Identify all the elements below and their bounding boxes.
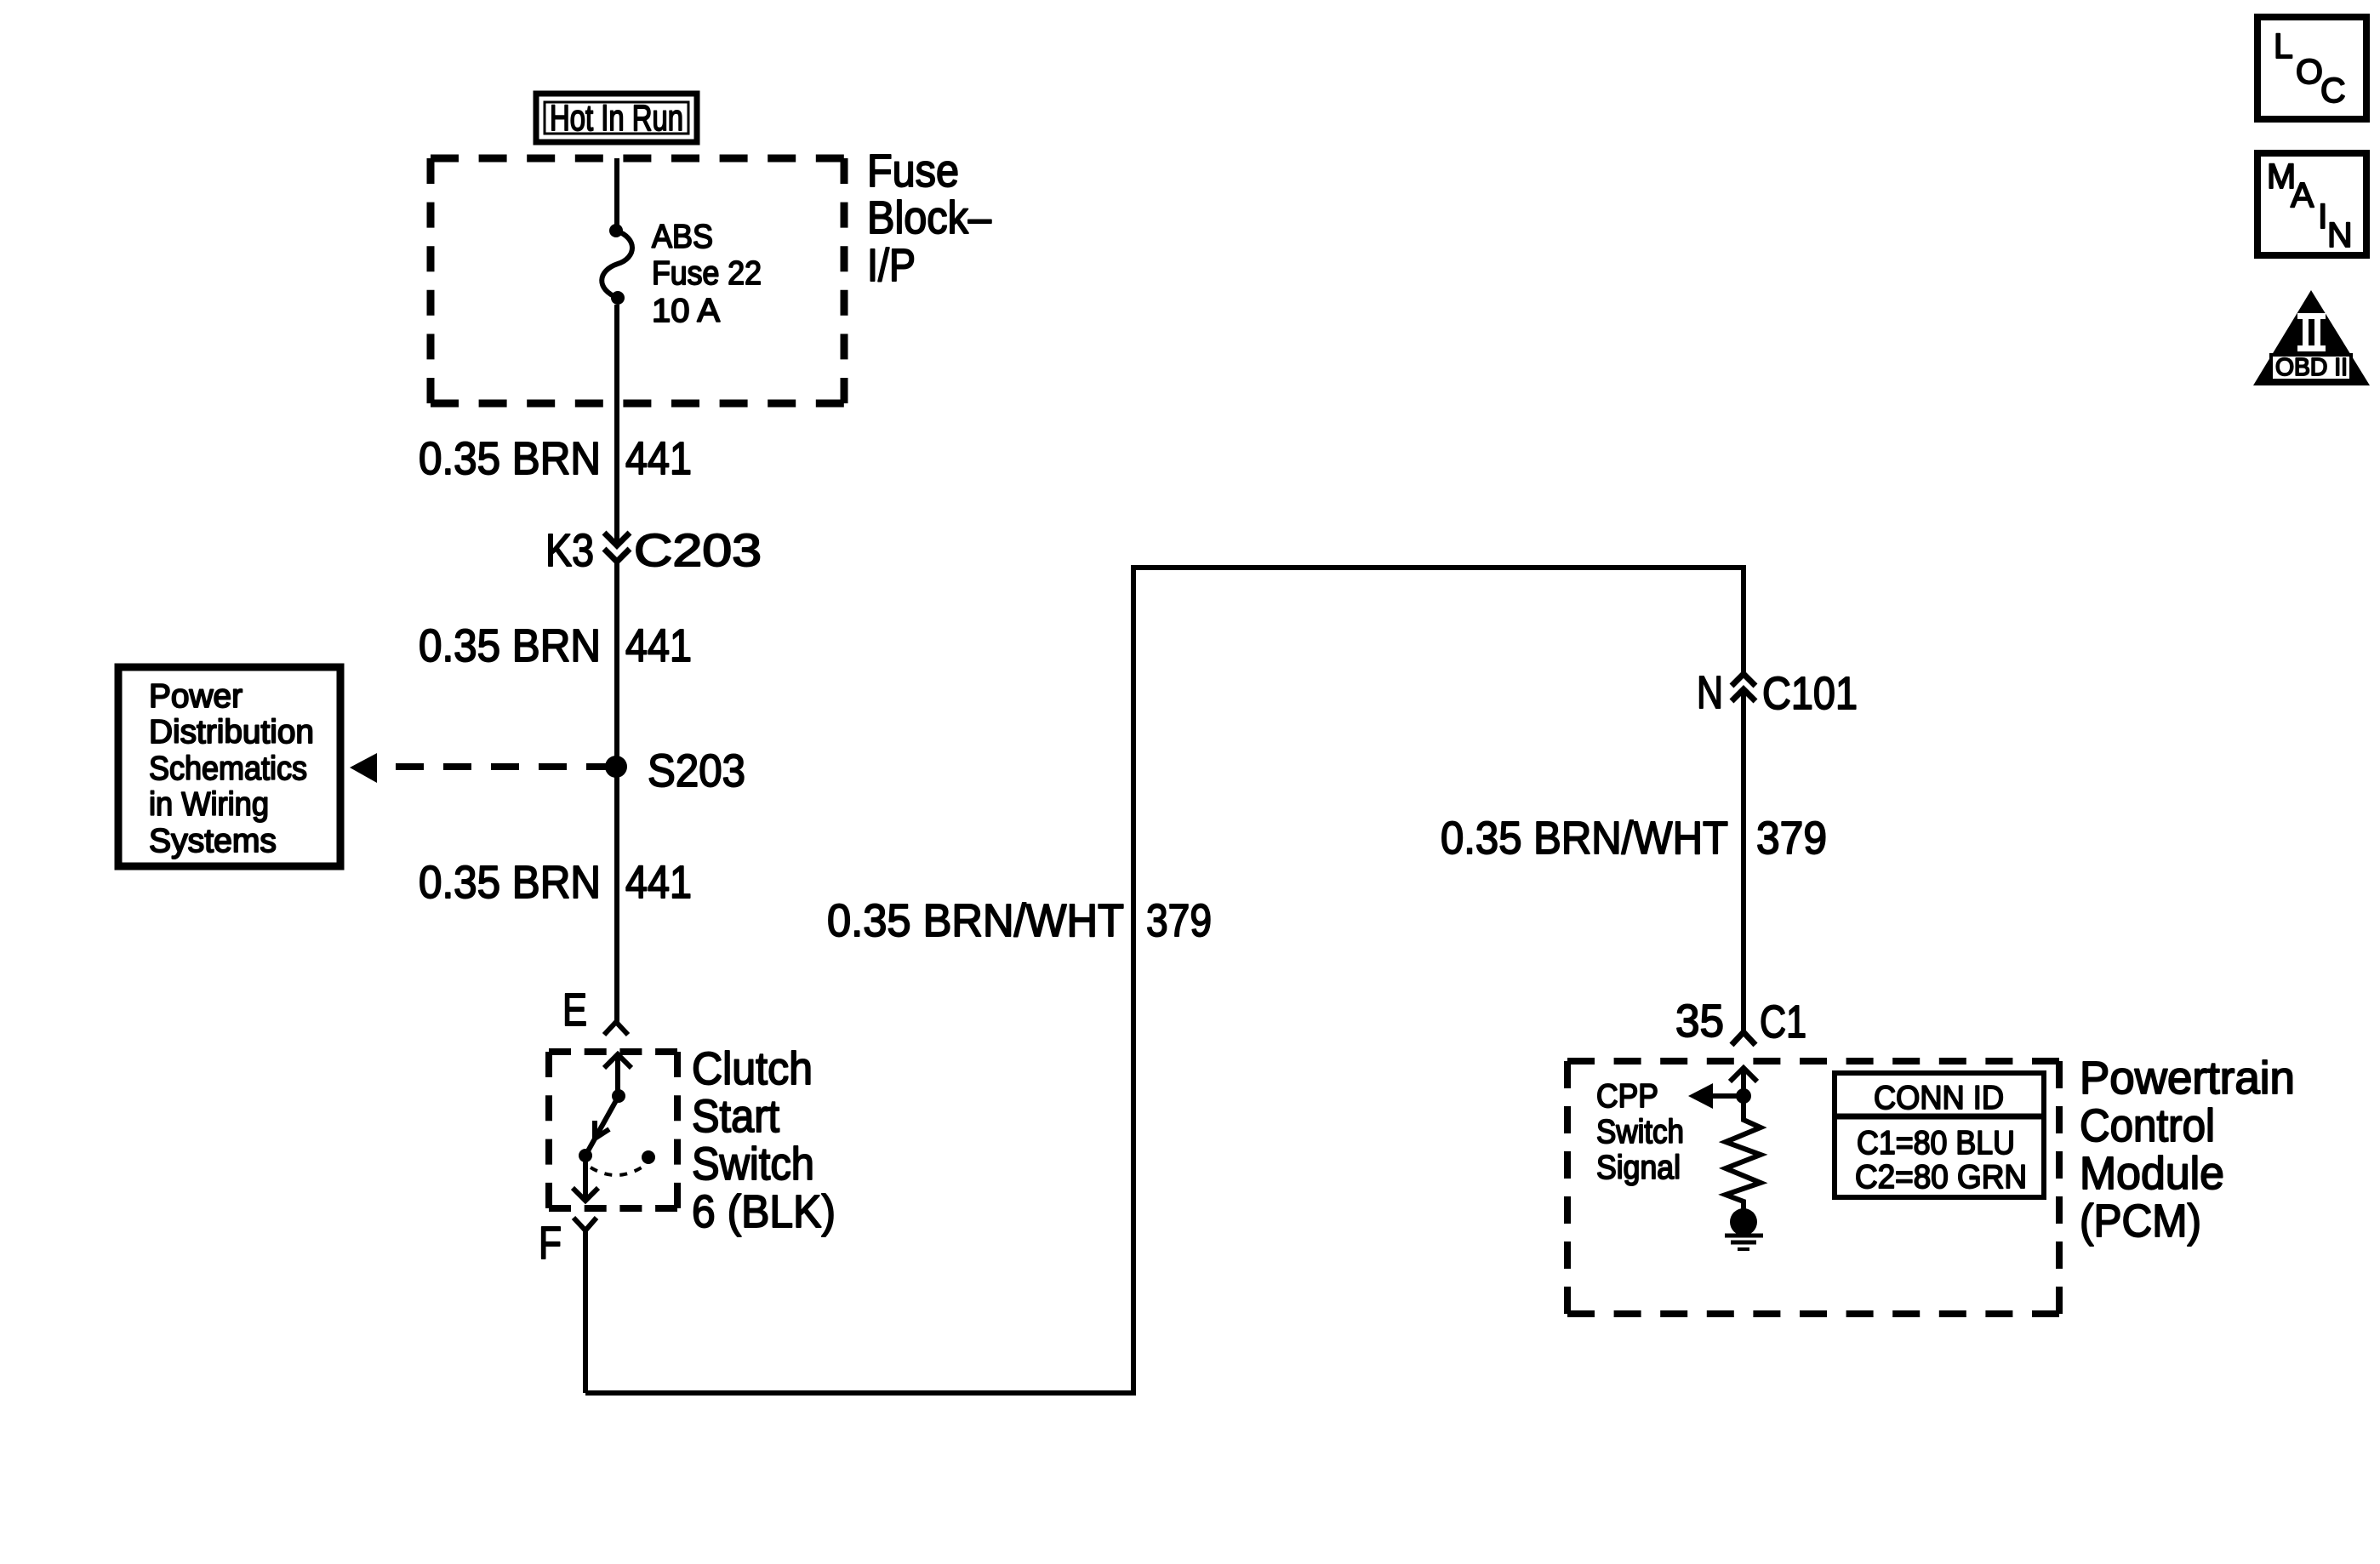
wire from Hot In Run to fuse bbox=[614, 158, 619, 228]
svg-text:I/P: I/P bbox=[867, 240, 916, 291]
svg-text:ABS: ABS bbox=[652, 219, 713, 255]
svg-text:CONN ID: CONN ID bbox=[1874, 1080, 2004, 1116]
dashed reference arrow to Power Distribution bbox=[350, 753, 617, 783]
CPP switch signal input arrow bbox=[1688, 1068, 1757, 1109]
svg-text:10 A: 10 A bbox=[652, 293, 720, 329]
svg-text:CPP: CPP bbox=[1596, 1078, 1658, 1115]
OBD II icon bbox=[2253, 290, 2370, 385]
svg-text:K3: K3 bbox=[545, 525, 594, 576]
connector E bbox=[562, 985, 628, 1036]
wire 379 bottom run from F to PCM riser bbox=[585, 568, 1744, 1393]
label 0.35 BRN 441 (third) bbox=[419, 857, 692, 908]
connector N C101 bbox=[1697, 667, 1858, 719]
svg-text:Switch: Switch bbox=[1596, 1114, 1684, 1150]
svg-text:Block–: Block– bbox=[867, 192, 991, 243]
connector 35 C1 bbox=[1675, 996, 1806, 1047]
label CPP Switch Signal bbox=[1596, 1078, 1684, 1186]
svg-text:F: F bbox=[539, 1218, 562, 1269]
svg-text:Clutch: Clutch bbox=[692, 1043, 813, 1094]
label Powertrain Control Module (PCM) bbox=[2080, 1053, 2295, 1247]
clutch start switch dashed box bbox=[549, 1052, 677, 1208]
svg-text:0.35 BRN: 0.35 BRN bbox=[419, 433, 601, 484]
fuse ABS Fuse 22 10 A bbox=[602, 224, 632, 305]
CONN ID table bbox=[1835, 1073, 2044, 1197]
connector K3 C203 bbox=[545, 525, 762, 576]
svg-text:Power: Power bbox=[149, 678, 243, 715]
wire 441 segment from C203 to E bbox=[614, 562, 619, 1022]
svg-text:L: L bbox=[2274, 26, 2293, 66]
label 0.35 BRN/WHT 379 (left) bbox=[827, 895, 1212, 946]
fuse block I/P dashed box bbox=[431, 158, 844, 403]
wire 379 segment from C101 to PCM bbox=[1741, 689, 1746, 1032]
svg-text:35: 35 bbox=[1675, 996, 1724, 1047]
svg-text:C101: C101 bbox=[1762, 668, 1858, 719]
MAIN icon bbox=[2257, 153, 2366, 255]
svg-text:C1=80 BLU: C1=80 BLU bbox=[1857, 1125, 2015, 1162]
svg-text:OBD II: OBD II bbox=[2275, 354, 2348, 381]
connector F bbox=[539, 1218, 596, 1393]
label Clutch Start Switch 6 (BLK) bbox=[692, 1043, 836, 1237]
svg-text:441: 441 bbox=[625, 620, 692, 671]
clutch start switch internals bbox=[573, 1054, 655, 1201]
svg-text:C1: C1 bbox=[1760, 996, 1806, 1047]
svg-text:C203: C203 bbox=[634, 525, 762, 576]
svg-text:Schematics: Schematics bbox=[149, 751, 307, 787]
ground (PCM internal) bbox=[1725, 1208, 1763, 1249]
svg-text:E: E bbox=[562, 985, 587, 1036]
svg-text:Hot In Run: Hot In Run bbox=[550, 98, 683, 139]
svg-text:Start: Start bbox=[692, 1091, 779, 1142]
svg-text:in Wiring: in Wiring bbox=[149, 786, 269, 823]
PCM dashed box bbox=[1567, 1061, 2059, 1314]
svg-text:Fuse: Fuse bbox=[867, 146, 959, 197]
svg-text:N: N bbox=[1697, 667, 1723, 718]
resistor (PCM internal pull-down) bbox=[1726, 1096, 1761, 1209]
svg-text:N: N bbox=[2327, 215, 2353, 254]
svg-text:Fuse 22: Fuse 22 bbox=[652, 255, 762, 292]
svg-text:379: 379 bbox=[1756, 813, 1827, 864]
svg-text:S203: S203 bbox=[648, 745, 745, 796]
svg-text:I: I bbox=[2318, 197, 2327, 236]
wire 441 segment from fuse to connector C203 bbox=[614, 305, 619, 545]
reference box Power Distribution Schematics in Wiring Systems bbox=[118, 667, 340, 866]
label 0.35 BRN/WHT 379 (right) bbox=[1441, 813, 1827, 864]
label Fuse Block-I/P bbox=[867, 146, 991, 291]
svg-text:0.35 BRN/WHT: 0.35 BRN/WHT bbox=[827, 895, 1124, 946]
svg-text:441: 441 bbox=[625, 433, 692, 484]
svg-text:Powertrain: Powertrain bbox=[2080, 1053, 2295, 1104]
svg-text:C: C bbox=[2320, 71, 2346, 110]
label ABS Fuse 22 10 A bbox=[652, 219, 762, 329]
label 0.35 BRN 441 (second) bbox=[419, 620, 692, 671]
svg-text:A: A bbox=[2291, 175, 2314, 214]
svg-text:0.35 BRN: 0.35 BRN bbox=[419, 857, 601, 908]
svg-text:6 (BLK): 6 (BLK) bbox=[692, 1186, 836, 1237]
splice S203 bbox=[605, 745, 745, 796]
svg-text:C2=80 GRN: C2=80 GRN bbox=[1855, 1159, 2027, 1196]
svg-text:0.35 BRN: 0.35 BRN bbox=[419, 620, 601, 671]
svg-text:(PCM): (PCM) bbox=[2080, 1196, 2201, 1247]
svg-text:0.35 BRN/WHT: 0.35 BRN/WHT bbox=[1441, 813, 1728, 864]
label 0.35 BRN 441 (first) bbox=[419, 433, 692, 484]
svg-text:441: 441 bbox=[625, 857, 692, 908]
svg-text:Switch: Switch bbox=[692, 1139, 814, 1190]
LOC icon bbox=[2257, 17, 2366, 119]
svg-text:Signal: Signal bbox=[1596, 1150, 1681, 1186]
svg-text:379: 379 bbox=[1146, 895, 1212, 946]
svg-text:Control: Control bbox=[2080, 1100, 2215, 1151]
node Hot In Run (power feed label box) bbox=[536, 94, 697, 142]
svg-text:Module: Module bbox=[2080, 1148, 2224, 1199]
svg-text:O: O bbox=[2296, 52, 2323, 91]
svg-text:Systems: Systems bbox=[149, 823, 277, 859]
svg-text:Distribution: Distribution bbox=[149, 714, 314, 751]
